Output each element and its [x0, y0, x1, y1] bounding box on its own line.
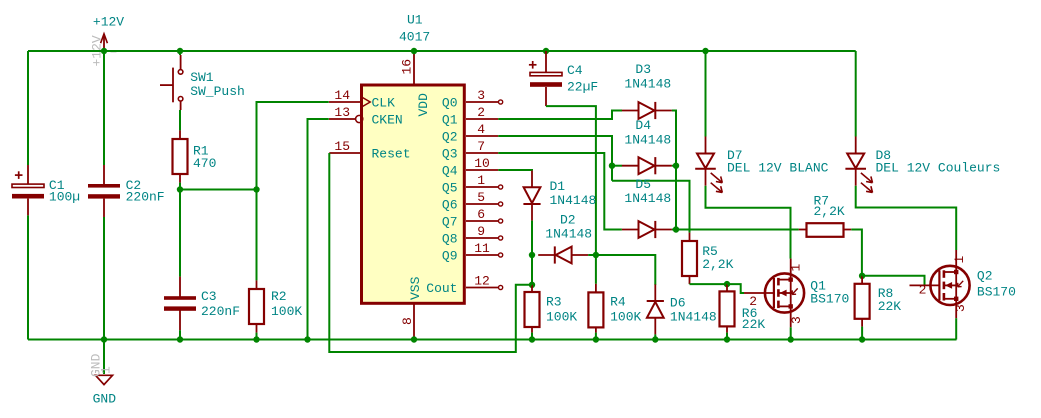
svg-text:16: 16	[400, 59, 415, 75]
svg-text:2: 2	[749, 294, 757, 309]
svg-text:1: 1	[952, 256, 967, 264]
svg-text:1N4148: 1N4148	[624, 132, 671, 147]
junction +12V/C2	[101, 48, 107, 54]
junction CLK/R2	[253, 186, 259, 192]
wire Q2 node to R5	[612, 181, 690, 233]
wire C2 branch	[103, 51, 105, 165]
LED D8 DEL 12V Couleurs	[847, 153, 864, 155]
wire Q3 output to D5	[498, 153, 622, 230]
pin Q9 11	[466, 254, 498, 256]
svg-text:D1: D1	[550, 179, 566, 194]
svg-text:Q1: Q1	[442, 112, 458, 127]
svg-text:D6: D6	[670, 295, 686, 310]
capacitor C1 100u	[27, 165, 29, 184]
wire Q1 output to D3	[498, 111, 622, 120]
wire R3 to rail	[531, 333, 533, 340]
junction R6/GND rail	[724, 336, 730, 342]
svg-text:14: 14	[334, 88, 350, 103]
pin Reset 15	[329, 152, 362, 154]
svg-text:2: 2	[477, 105, 485, 120]
wire left branch down to C1	[27, 51, 29, 165]
pin CLK 14	[329, 101, 362, 103]
pin CKEN 13	[329, 118, 356, 120]
junction C4/R4/D2	[593, 252, 599, 258]
svg-text:7: 7	[477, 139, 485, 154]
svg-text:2,2K: 2,2K	[702, 257, 733, 272]
svg-text:SW1: SW1	[190, 70, 214, 85]
svg-text:GND: GND	[93, 391, 117, 406]
junction R3/GND rail	[529, 336, 535, 342]
wire Q2 output to D4	[498, 136, 612, 181]
svg-text:D3: D3	[635, 62, 651, 77]
wire gate jog to Q1	[727, 284, 744, 293]
junction CKEN/GND rail	[304, 336, 310, 342]
diode D2 1N4148	[556, 247, 572, 264]
wire Reset loop	[329, 153, 532, 352]
svg-text:22µF: 22µF	[567, 80, 598, 95]
svg-text:4: 4	[477, 122, 485, 137]
junction D1/D2 cathodes	[529, 252, 535, 258]
wire R6 to rail	[726, 333, 728, 340]
LED D7 DEL 12V BLANC	[697, 153, 714, 155]
pin Q1 2	[466, 118, 498, 120]
wire Q4 output to D1	[498, 169, 532, 172]
svg-text:100K: 100K	[610, 310, 641, 325]
junction C2/GND rail	[101, 336, 107, 342]
wire cathode bus D4-D5	[675, 166, 677, 230]
junction D6/GND rail	[652, 336, 658, 342]
wire Q2 drain pin	[955, 250, 957, 272]
wire D7 cathode to Q1 drain	[706, 186, 791, 259]
junction R7/R8/Q2 gate	[859, 273, 865, 279]
wire Q2 source to rail	[955, 299, 957, 318]
svg-text:R3: R3	[546, 295, 562, 310]
svg-text:Q6: Q6	[442, 197, 458, 212]
junction D4 cathode	[673, 163, 679, 169]
svg-text:12: 12	[474, 274, 490, 289]
svg-text:U1: U1	[407, 13, 423, 28]
junction R5/R6/gate	[724, 281, 730, 287]
svg-text:10: 10	[474, 156, 490, 171]
svg-text:1N4148: 1N4148	[545, 227, 592, 242]
svg-text:220nF: 220nF	[201, 304, 240, 319]
wire D4 anode lead	[612, 165, 622, 167]
junction +12V/SW1	[177, 48, 183, 54]
svg-text:100K: 100K	[271, 304, 302, 319]
svg-text:9: 9	[477, 224, 485, 239]
wire Q1 source to rail	[790, 306, 792, 327]
svg-text:Q8: Q8	[442, 231, 458, 246]
diode D5 1N4148	[639, 221, 655, 238]
svg-text:D4: D4	[635, 118, 651, 133]
svg-text:Cout: Cout	[426, 281, 457, 296]
resistor R7 2.2K	[799, 229, 807, 231]
wire Q1 drain pin	[790, 259, 792, 280]
wire node to D6	[596, 255, 655, 285]
switch SW1 SW_Push	[180, 55, 182, 70]
wire D3 cathode down to D4	[672, 111, 676, 166]
wire reset node down	[531, 255, 533, 285]
junction R2/GND rail	[253, 336, 259, 342]
diode D6 1N4148	[647, 302, 664, 318]
wire D2 anode to C4 node	[588, 254, 596, 256]
junction Q1 source/GND rail	[788, 336, 794, 342]
wire D1 cathode to node	[531, 221, 533, 255]
svg-text:BS170: BS170	[977, 284, 1016, 299]
pin Q4 10	[466, 169, 498, 171]
svg-text:Q7: Q7	[442, 214, 458, 229]
svg-text:Q2: Q2	[977, 268, 993, 283]
wire D5 cathode to bus	[672, 229, 676, 231]
wire R8 to rail	[861, 327, 863, 340]
svg-text:VSS: VSS	[408, 276, 423, 300]
wire C3 to rail	[179, 330, 181, 339]
ground GND symbol	[103, 340, 105, 375]
svg-text:1: 1	[477, 173, 485, 188]
wire C4 to R4 column	[546, 106, 596, 255]
transistor Q2 BS170	[910, 284, 940, 286]
resistor R5 2.2K	[689, 233, 691, 241]
svg-text:Q9: Q9	[442, 248, 458, 263]
svg-text:100K: 100K	[546, 310, 577, 325]
junction D4 anode	[609, 163, 615, 169]
junction R1/C3	[177, 186, 183, 192]
svg-text:C3: C3	[201, 289, 217, 304]
svg-text:1: 1	[99, 366, 114, 374]
svg-text:2: 2	[919, 282, 927, 297]
wire OR bus to R7	[676, 229, 799, 231]
pin Q2 4	[466, 135, 498, 137]
svg-text:R4: R4	[610, 295, 626, 310]
svg-text:Q4: Q4	[442, 163, 458, 178]
wire CKEN to ground	[308, 119, 329, 340]
svg-text:C4: C4	[567, 63, 583, 78]
junction C3/GND rail	[177, 336, 183, 342]
capacitor C4 22uF	[545, 51, 547, 72]
junction C4/+12V rail	[543, 48, 549, 54]
power +12V	[103, 34, 105, 51]
wire SW1 to R1	[179, 110, 181, 130]
svg-text:470: 470	[193, 156, 216, 171]
svg-text:220nF: 220nF	[126, 189, 165, 204]
svg-text:BS170: BS170	[810, 291, 849, 306]
wire R2 column	[256, 190, 258, 281]
svg-text:3: 3	[953, 304, 968, 312]
svg-text:13: 13	[334, 105, 350, 120]
svg-text:SW_Push: SW_Push	[190, 84, 245, 99]
svg-text:+12V: +12V	[93, 15, 124, 30]
junction VSS/GND rail	[411, 336, 417, 342]
pin VSS 8	[413, 303, 415, 337]
junction VDD rail	[411, 48, 417, 54]
wire D6 to rail	[654, 334, 656, 339]
wire R5 to R6 junction	[690, 283, 728, 285]
wire C1 to bottom rail	[27, 215, 29, 339]
capacitor C3 220nF	[179, 277, 181, 298]
wire CLK net	[257, 102, 329, 190]
capacitor C2 220nF	[103, 165, 105, 184]
junction R4/GND rail	[593, 336, 599, 342]
wire R4 column lower	[595, 255, 597, 284]
svg-text:5: 5	[477, 190, 485, 205]
svg-text:Q5: Q5	[442, 180, 458, 195]
resistor R6 22K	[726, 284, 728, 291]
svg-text:15: 15	[334, 139, 350, 154]
junction R8/GND rail	[859, 336, 865, 342]
pin VDD 16	[413, 51, 415, 85]
svg-text:DEL 12V BLANC: DEL 12V BLANC	[727, 161, 829, 176]
svg-text:1N4148: 1N4148	[624, 76, 671, 91]
resistor R3 100K	[531, 285, 533, 292]
wire bottom GND rail	[28, 339, 957, 341]
wire D8 anode feed	[855, 51, 857, 137]
svg-text:22K: 22K	[878, 299, 902, 314]
diode D1 1N4148	[524, 187, 541, 203]
svg-text:22K: 22K	[742, 317, 766, 332]
wire SW1 branch	[179, 51, 181, 55]
resistor R2 100K	[256, 280, 258, 289]
svg-text:1N4148: 1N4148	[624, 191, 671, 206]
svg-text:D2: D2	[560, 213, 576, 228]
resistor R4 100K	[595, 284, 597, 293]
wire C3 branch	[179, 190, 181, 277]
svg-text:1N4148: 1N4148	[550, 193, 597, 208]
svg-text:Q2: Q2	[442, 129, 458, 144]
svg-text:CKEN: CKEN	[372, 112, 403, 127]
svg-text:1N4148: 1N4148	[670, 309, 717, 324]
pin Q7 6	[466, 220, 498, 222]
pin Q0 3	[466, 101, 498, 103]
wire R1 bottom to junction	[179, 183, 181, 190]
diode D3 1N4148	[639, 102, 655, 119]
wire D4 cathode to bus	[672, 165, 676, 167]
wire R4 to rail	[595, 333, 597, 340]
svg-text:8: 8	[400, 317, 415, 325]
pin Q5 1	[466, 186, 498, 188]
svg-text:4017: 4017	[399, 30, 430, 45]
svg-text:DEL 12V Couleurs: DEL 12V Couleurs	[876, 161, 1001, 176]
junction D7/+12V rail	[702, 48, 708, 54]
svg-text:11: 11	[474, 241, 490, 256]
svg-text:Q0: Q0	[442, 95, 458, 110]
svg-text:R2: R2	[271, 289, 287, 304]
wire junction to R2 column	[180, 189, 257, 191]
pin Q8 9	[466, 237, 498, 239]
svg-text:Q3: Q3	[442, 146, 458, 161]
svg-text:VDD: VDD	[416, 93, 431, 117]
wire top +12V rail	[28, 50, 856, 52]
pin Q3 7	[466, 152, 498, 154]
pin Cout 12	[466, 287, 498, 289]
diode D4 1N4148	[639, 157, 655, 174]
transistor Q1 BS170	[744, 292, 774, 294]
wire D8 cathode to Q2 drain	[856, 186, 957, 250]
svg-text:100µ: 100µ	[49, 189, 80, 204]
junction D5 cathode	[673, 226, 679, 232]
pin Q6 5	[466, 203, 498, 205]
svg-text:CLK: CLK	[372, 95, 396, 110]
wire Q2 gate feed	[862, 276, 924, 286]
svg-text:2,2K: 2,2K	[814, 204, 845, 219]
wire R7 to R8 junction	[851, 230, 862, 276]
svg-text:D5: D5	[635, 177, 651, 192]
op-amp U1 4017 body	[362, 85, 465, 303]
resistor R8 22K	[861, 276, 863, 284]
wire R2 to rail	[256, 333, 258, 340]
wire D7 anode feed	[705, 51, 707, 137]
svg-text:6: 6	[477, 207, 485, 222]
svg-text:3: 3	[477, 88, 485, 103]
resistor R1 470	[179, 130, 181, 139]
svg-text:Reset: Reset	[372, 146, 411, 161]
junction R3 top / reset wire	[529, 282, 535, 288]
